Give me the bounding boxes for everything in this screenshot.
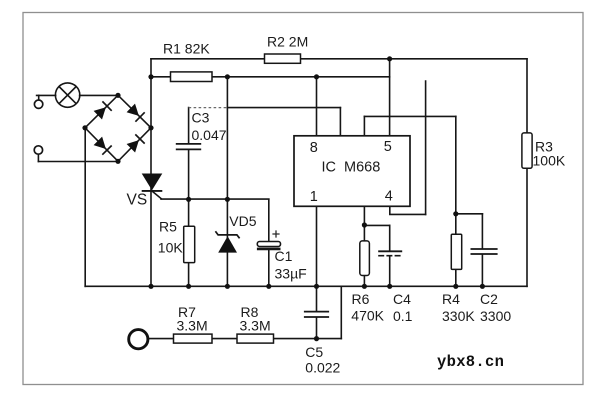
wire riser x=341.3 xyxy=(340,286,342,338)
node junction xyxy=(148,284,153,289)
capacitor C1 negative plate xyxy=(257,248,281,251)
lamp EL xyxy=(55,83,79,107)
wire IC pin 1 / C5 column xyxy=(316,206,318,338)
svg-text:R5: R5 xyxy=(159,219,177,235)
wire terminal J2 stub xyxy=(37,154,39,161)
wire C4 column x=389.7 xyxy=(389,225,391,286)
svg-text:10K: 10K xyxy=(158,240,184,256)
resistor R8 xyxy=(237,334,274,343)
svg-text:0.047: 0.047 xyxy=(192,127,227,143)
capacitor C4 xyxy=(378,250,402,252)
svg-text:M668: M668 xyxy=(344,160,380,176)
svg-text:100K: 100K xyxy=(533,153,566,169)
node junction xyxy=(82,125,87,130)
wire touch row y=338.6 xyxy=(148,338,341,340)
svg-text:1: 1 xyxy=(310,189,318,205)
wire R4 to C2 row y=213.8 xyxy=(456,213,483,215)
svg-text:R6: R6 xyxy=(352,291,370,307)
node junction xyxy=(148,125,153,130)
wire gate row y=199.3 xyxy=(161,198,269,200)
resistor R1 xyxy=(171,72,213,82)
svg-text:C4: C4 xyxy=(393,291,411,307)
node junction xyxy=(186,284,191,289)
wire R1 row y=76.8 xyxy=(151,76,390,78)
node junction xyxy=(362,222,367,227)
resistor R3 xyxy=(522,133,532,168)
capacitor C1 positive plate xyxy=(257,242,280,247)
svg-text:8: 8 xyxy=(310,140,318,156)
node junction xyxy=(387,284,392,289)
wire row y=116.4 to R4 column xyxy=(364,115,455,117)
svg-text:0.1: 0.1 xyxy=(393,308,413,324)
capacitor C3 xyxy=(176,144,201,150)
resistor R2 xyxy=(265,54,301,63)
wire terminal J1 stub xyxy=(38,95,40,100)
thyristor VS xyxy=(142,174,163,191)
svg-text:R2 2M: R2 2M xyxy=(267,34,308,50)
node junction xyxy=(266,284,271,289)
svg-text:4: 4 xyxy=(385,189,393,205)
node junction xyxy=(314,284,319,289)
terminal node B xyxy=(34,146,42,154)
wire C2 column x=482.4 xyxy=(481,214,483,286)
resistor R4 xyxy=(451,234,461,269)
svg-text:330K: 330K xyxy=(442,308,475,324)
svg-text:ybx8.cn: ybx8.cn xyxy=(437,353,504,371)
node junction xyxy=(480,284,485,289)
node junction xyxy=(453,284,458,289)
node junction xyxy=(115,93,120,98)
wire right vertical x=151 (top bus to VS to ground bus) xyxy=(150,59,152,286)
wire top bus y=58.8 xyxy=(151,58,527,60)
wire IC pin 5 column xyxy=(389,59,391,136)
node junction xyxy=(314,74,319,79)
resistor R7 xyxy=(174,334,213,343)
svg-text:C3: C3 xyxy=(192,110,210,126)
wire IC top pin x=340.4 xyxy=(339,108,341,136)
node junction xyxy=(225,284,230,289)
diode VD3 bridge bottom-left xyxy=(94,137,112,155)
svg-text:3.3M: 3.3M xyxy=(240,318,271,334)
diode VD2 bridge top-right xyxy=(127,104,145,122)
wire IC pin 4 step xyxy=(390,206,426,214)
wire bridge side bottom-left xyxy=(85,128,118,162)
resistor R6 xyxy=(360,241,370,276)
svg-text:VD5: VD5 xyxy=(229,213,256,229)
terminal node A xyxy=(34,100,42,108)
capacitor C2 xyxy=(471,249,498,254)
diode VD4 bridge bottom-right xyxy=(127,134,145,152)
diode VD1 bridge top-left xyxy=(94,101,112,119)
wire lamp row y=95.3 xyxy=(37,94,118,96)
svg-text:0.022: 0.022 xyxy=(305,360,340,376)
node junction xyxy=(186,197,191,202)
wire antenna stub x=425.6 xyxy=(425,81,427,214)
node junction xyxy=(115,159,120,164)
svg-text:33µF: 33µF xyxy=(275,266,307,282)
svg-text:IC: IC xyxy=(322,160,337,176)
wire bridge side bottom-right xyxy=(118,128,151,162)
node junction xyxy=(314,336,319,341)
node junction xyxy=(453,211,458,216)
svg-text:C5: C5 xyxy=(305,344,323,360)
svg-text:C1: C1 xyxy=(275,248,293,264)
wire VD5 column x=227.4 xyxy=(226,77,228,286)
svg-text:3300: 3300 xyxy=(480,308,511,324)
wire ground bus y=286.3 xyxy=(85,285,527,287)
svg-text:R1 82K: R1 82K xyxy=(163,41,210,57)
wire R6 to C4 row y=225.4 xyxy=(364,224,389,226)
svg-text:VS: VS xyxy=(127,192,148,209)
wire R3 column x=527 xyxy=(526,59,528,286)
op-amp U1 IC M668 box xyxy=(294,136,410,207)
node junction xyxy=(387,56,392,61)
node junction xyxy=(225,74,230,79)
wire bridge side top-left xyxy=(85,95,118,128)
node junction xyxy=(362,284,367,289)
capacitor C5 xyxy=(304,312,329,317)
capacitor C1 plus sign xyxy=(272,230,279,237)
node junction xyxy=(148,74,153,79)
wire VS gate diagonal xyxy=(152,191,162,199)
wire bridge side top-right xyxy=(118,95,151,128)
svg-text:3.3M: 3.3M xyxy=(177,318,208,334)
wire C3 top row solid segment y=107.6 xyxy=(227,107,340,109)
wire R4 column x=455.8 xyxy=(455,116,457,286)
wire IC pin 2 / R6 column xyxy=(363,206,365,286)
wire IC pin 8 column xyxy=(316,77,318,136)
wire J2 row y=162.3 to bridge AC node xyxy=(38,161,118,163)
wire IC top pin x=364.4 xyxy=(363,116,365,135)
wire C3 dashed link y=107.6 xyxy=(189,107,228,109)
resistor R5 xyxy=(184,226,195,262)
wire C1 column x=268.8 xyxy=(268,199,270,286)
svg-text:5: 5 xyxy=(384,139,392,155)
svg-text:470K: 470K xyxy=(351,308,384,324)
svg-text:R4: R4 xyxy=(442,291,460,307)
node junction xyxy=(225,197,230,202)
wire C3/R5 column x=188.6 xyxy=(188,108,190,287)
svg-text:C2: C2 xyxy=(480,291,498,307)
wire left vertical from bridge DC- node to ground bus xyxy=(84,128,86,286)
zener diode VD5 xyxy=(215,231,239,252)
touch electrode M xyxy=(129,330,148,349)
